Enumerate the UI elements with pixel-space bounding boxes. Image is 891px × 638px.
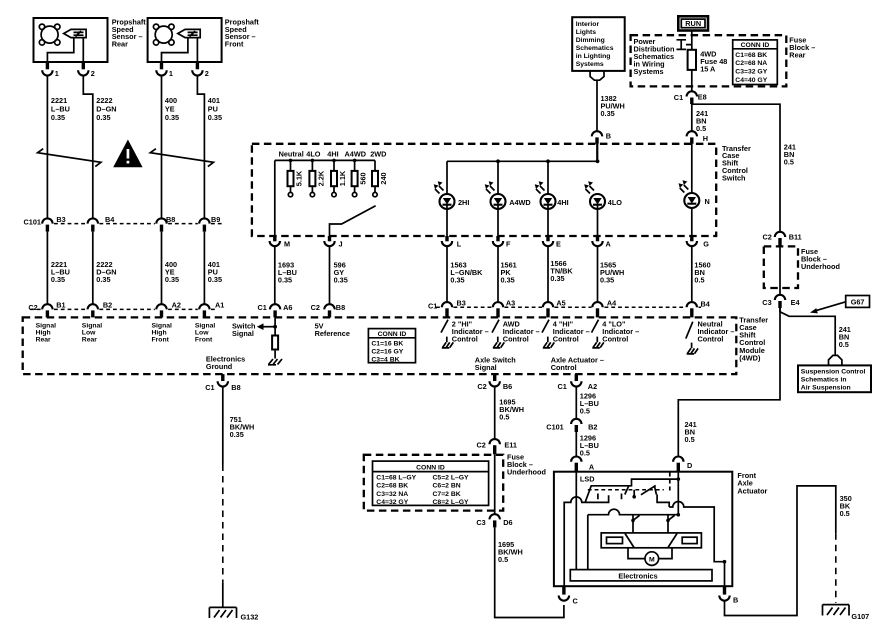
switch pin F bbox=[493, 236, 511, 248]
LSD middle blade bbox=[641, 486, 656, 495]
svg-text:4HI: 4HI bbox=[327, 150, 338, 159]
svg-text:0.35: 0.35 bbox=[51, 113, 65, 122]
svg-text:C1: C1 bbox=[205, 383, 214, 392]
coil resistor left bbox=[607, 537, 623, 543]
svg-text:2.2K: 2.2K bbox=[316, 170, 325, 186]
wire 596 bbox=[329, 246, 331, 303]
svg-text:Neutral: Neutral bbox=[279, 150, 304, 159]
G67 splice box bbox=[846, 296, 870, 308]
svg-text:4LO: 4LO bbox=[306, 150, 321, 159]
resistor R 240 bbox=[372, 160, 388, 196]
svg-text:C101: C101 bbox=[24, 218, 41, 227]
connector C1 E8 bbox=[674, 91, 707, 104]
sensor front pin 1 bbox=[156, 62, 173, 78]
actuator pin A bbox=[571, 457, 595, 472]
svg-text:Rear: Rear bbox=[36, 337, 51, 344]
LSD fixed contacts bbox=[598, 490, 634, 499]
svg-text:Control: Control bbox=[452, 334, 478, 343]
switch signal arrow bbox=[257, 323, 277, 330]
fuse 4WD Fuse 48 15A bbox=[688, 50, 696, 70]
fuse block rear box (dashed) bbox=[631, 35, 787, 86]
wire 1561 bbox=[497, 246, 499, 302]
pull-down resistor under A6 bbox=[272, 317, 278, 358]
RUN ignition box bbox=[678, 16, 708, 30]
transfer case shift control module box (dashed) bbox=[23, 317, 737, 374]
svg-text:E: E bbox=[556, 239, 561, 248]
module pin C1 A2 axle actuator control bbox=[558, 374, 598, 391]
svg-text:B3: B3 bbox=[457, 299, 466, 308]
svg-text:G67: G67 bbox=[851, 298, 865, 307]
svg-text:N: N bbox=[705, 197, 710, 206]
module pin C1 B8 electronics ground bbox=[205, 374, 240, 392]
svg-text:C101: C101 bbox=[546, 423, 563, 432]
svg-text:A2: A2 bbox=[172, 301, 181, 310]
C101 pin B8 bbox=[156, 215, 175, 232]
svg-text:D6: D6 bbox=[503, 518, 512, 527]
resistor R 560 bbox=[352, 159, 368, 197]
svg-text:E4: E4 bbox=[791, 298, 801, 307]
svg-text:Control: Control bbox=[698, 334, 724, 343]
module pin A6 bbox=[258, 303, 293, 317]
svg-text:B1: B1 bbox=[56, 301, 65, 310]
actuator bus to pin B with hop over D lead bbox=[669, 502, 724, 562]
svg-text:RUN: RUN bbox=[685, 19, 701, 28]
svg-text:C3=32 NA: C3=32 NA bbox=[376, 491, 408, 498]
wire through underhood box bbox=[779, 246, 781, 294]
module pin A2 bbox=[156, 301, 181, 318]
switch pin H bbox=[687, 131, 708, 144]
svg-text:0.35: 0.35 bbox=[51, 275, 65, 284]
wire rail to pin M bbox=[274, 160, 276, 236]
svg-text:G: G bbox=[703, 239, 709, 248]
svg-text:D: D bbox=[687, 461, 692, 470]
switch pin B bbox=[592, 131, 611, 144]
svg-text:High: High bbox=[152, 330, 167, 337]
svg-text:C1: C1 bbox=[428, 301, 437, 310]
svg-text:0.35: 0.35 bbox=[165, 113, 179, 122]
svg-text:C: C bbox=[573, 597, 579, 606]
svg-text:Reference: Reference bbox=[315, 329, 350, 338]
front axle actuator box bbox=[554, 472, 732, 587]
svg-text:C8=2 L–GY: C8=2 L–GY bbox=[433, 499, 470, 506]
module pin C2/B1 bbox=[28, 301, 65, 318]
connector C3 E4 bbox=[762, 295, 800, 308]
wire 401 lower bbox=[203, 232, 205, 304]
svg-text:Underhood: Underhood bbox=[801, 262, 840, 271]
wire 1296 lower bbox=[575, 432, 577, 456]
G67 arrow bbox=[810, 302, 846, 314]
svg-text:G107: G107 bbox=[851, 612, 869, 621]
switch pin G bbox=[687, 236, 710, 248]
wire 400 upper bbox=[161, 76, 163, 218]
svg-text:0.5: 0.5 bbox=[685, 435, 695, 444]
svg-text:15 A: 15 A bbox=[700, 65, 716, 74]
svg-text:Switch: Switch bbox=[722, 173, 746, 182]
wire fuse to E8 bbox=[691, 70, 693, 92]
C101 pin B3 bbox=[42, 215, 66, 232]
wire 2221 lower bbox=[46, 232, 48, 304]
svg-text:240: 240 bbox=[379, 172, 388, 184]
actuator internal A lead bbox=[575, 472, 577, 570]
switch pin M bbox=[270, 236, 290, 248]
svg-text:C3: C3 bbox=[762, 298, 771, 307]
svg-text:Systems: Systems bbox=[576, 61, 604, 68]
svg-text:2: 2 bbox=[205, 69, 209, 78]
svg-text:A: A bbox=[606, 239, 612, 248]
connector C3 D6 bbox=[476, 514, 512, 527]
switch pin E bbox=[543, 236, 561, 248]
svg-text:CONN ID: CONN ID bbox=[378, 331, 407, 338]
svg-text:Schematics in: Schematics in bbox=[801, 377, 847, 384]
svg-text:C2=68 BK: C2=68 BK bbox=[376, 483, 408, 490]
svg-text:C4=40 GY: C4=40 GY bbox=[735, 77, 767, 84]
warning triangle bbox=[113, 140, 142, 168]
svg-text:A: A bbox=[589, 463, 595, 472]
fuse block underhood box lower (dashed) bbox=[364, 455, 503, 511]
LSD right bracket bbox=[657, 495, 669, 508]
switch pin J bbox=[324, 236, 342, 248]
svg-text:Actuator: Actuator bbox=[737, 486, 767, 495]
interior lights dimming box bbox=[572, 17, 625, 71]
svg-text:Lights: Lights bbox=[576, 29, 597, 36]
wire 1560 bbox=[691, 246, 693, 302]
ground G107 bbox=[823, 605, 870, 621]
svg-text:Rear: Rear bbox=[789, 51, 805, 60]
AWD indicator control switch bbox=[492, 319, 540, 348]
svg-text:Signal: Signal bbox=[36, 323, 57, 330]
2 HI indicator control switch bbox=[441, 319, 489, 348]
neutral indicator control switch bbox=[686, 319, 735, 354]
wire 2222 upper bbox=[83, 76, 93, 218]
svg-text:0.35: 0.35 bbox=[208, 275, 222, 284]
svg-text:0.35: 0.35 bbox=[96, 275, 110, 284]
LED 4HI bbox=[535, 181, 569, 209]
svg-text:Signal: Signal bbox=[82, 323, 103, 330]
svg-text:B11: B11 bbox=[789, 233, 802, 242]
svg-text:C1=68 BK: C1=68 BK bbox=[735, 52, 767, 59]
svg-text:A5: A5 bbox=[556, 299, 565, 308]
LED N bbox=[679, 180, 710, 208]
svg-text:B4: B4 bbox=[105, 215, 115, 224]
C101 pin B9 bbox=[199, 215, 220, 232]
module pin B8 bbox=[311, 303, 346, 317]
module entry connector dashed line bbox=[30, 308, 217, 310]
wire 1693 bbox=[274, 246, 276, 303]
svg-text:A3: A3 bbox=[506, 299, 515, 308]
wire 751 bbox=[223, 387, 255, 608]
resistor R 5.1K bbox=[288, 159, 304, 197]
svg-text:C2=68 NA: C2=68 NA bbox=[735, 60, 767, 67]
svg-text:C2: C2 bbox=[477, 382, 486, 391]
svg-text:C2: C2 bbox=[477, 440, 486, 449]
svg-text:C3=32 GY: C3=32 GY bbox=[735, 69, 767, 76]
svg-text:C2=16 GY: C2=16 GY bbox=[371, 349, 403, 356]
CONN ID table fuse block rear bbox=[733, 40, 778, 85]
svg-text:0.5: 0.5 bbox=[498, 555, 508, 564]
svg-text:B6: B6 bbox=[503, 382, 512, 391]
svg-text:F: F bbox=[506, 239, 511, 248]
module pin B4 bbox=[687, 300, 711, 318]
motor feed contacts bbox=[631, 515, 674, 533]
svg-text:Rear: Rear bbox=[112, 40, 128, 49]
svg-text:B3: B3 bbox=[56, 215, 65, 224]
wire 1695 lower to pin C bbox=[495, 527, 564, 617]
svg-text:B8: B8 bbox=[166, 215, 175, 224]
CONN ID table module bbox=[368, 329, 415, 364]
suspension control schematics box bbox=[798, 365, 871, 392]
svg-text:High: High bbox=[36, 330, 51, 337]
svg-text:C2: C2 bbox=[311, 303, 320, 312]
actuator pin D bbox=[673, 457, 692, 472]
svg-text:0.5: 0.5 bbox=[839, 340, 849, 349]
svg-text:Schematics: Schematics bbox=[576, 45, 614, 52]
svg-text:B2: B2 bbox=[103, 301, 112, 310]
switch pin L bbox=[442, 236, 462, 248]
wire RUN to fuse bbox=[691, 31, 693, 50]
svg-text:C2: C2 bbox=[763, 233, 772, 242]
wire 400 lower bbox=[161, 232, 163, 304]
resistor ladder rail bbox=[275, 159, 375, 161]
svg-text:C1: C1 bbox=[558, 382, 567, 391]
actuator pin C bbox=[559, 586, 579, 605]
sensor rear pin 1 bbox=[42, 62, 59, 78]
ground under resistor bbox=[268, 359, 282, 365]
svg-text:G132: G132 bbox=[241, 613, 259, 622]
svg-text:C5=2 L–GY: C5=2 L–GY bbox=[433, 475, 470, 482]
svg-text:C4=32 GY: C4=32 GY bbox=[376, 499, 408, 506]
module pin A1 bbox=[199, 301, 224, 318]
wire E4 down to D bbox=[678, 308, 780, 456]
svg-text:C7=2 BK: C7=2 BK bbox=[433, 491, 461, 498]
middle connector dashed line bbox=[436, 306, 701, 308]
svg-text:Signal: Signal bbox=[195, 323, 216, 330]
svg-text:0.35: 0.35 bbox=[601, 109, 615, 118]
resistor R 2.2K bbox=[309, 159, 325, 197]
svg-text:0.35: 0.35 bbox=[96, 113, 110, 122]
svg-text:4LO: 4LO bbox=[608, 198, 623, 207]
module pin C2 B6 axle switch signal bbox=[477, 374, 512, 391]
svg-text:M: M bbox=[649, 557, 655, 564]
svg-text:Control: Control bbox=[553, 334, 579, 343]
propshaft speed sensor front box bbox=[148, 18, 222, 62]
svg-text:A6: A6 bbox=[283, 303, 292, 312]
wire 350 from pin B to G107 bbox=[725, 486, 852, 616]
ground G132 bbox=[209, 607, 258, 621]
actuator internal mid bus with hop bbox=[588, 509, 679, 569]
LED A4WD bbox=[485, 181, 531, 209]
svg-text:0.5: 0.5 bbox=[580, 449, 590, 458]
wire 1566 bbox=[547, 246, 549, 302]
actuator internal D lead bbox=[677, 472, 681, 517]
svg-text:Control: Control bbox=[602, 334, 628, 343]
svg-text:4HI: 4HI bbox=[557, 198, 568, 207]
svg-text:0.35: 0.35 bbox=[165, 275, 179, 284]
svg-text:560: 560 bbox=[359, 172, 368, 184]
svg-text:0.35: 0.35 bbox=[278, 276, 292, 285]
LED 2HI bbox=[434, 181, 470, 209]
wire break mark left pair bbox=[38, 149, 101, 167]
svg-text:Interior: Interior bbox=[576, 21, 600, 28]
svg-text:0.35: 0.35 bbox=[550, 274, 564, 283]
actuator pin B bbox=[719, 586, 738, 604]
switch pin A bbox=[592, 236, 611, 248]
svg-text:Front: Front bbox=[195, 337, 213, 344]
wire E11 to D6 bbox=[494, 454, 496, 514]
svg-text:0.35: 0.35 bbox=[501, 276, 515, 285]
svg-text:J: J bbox=[339, 239, 343, 248]
4 LO indicator control switch bbox=[592, 319, 640, 348]
off-page bracket to run wire bbox=[677, 40, 692, 50]
svg-text:CONN ID: CONN ID bbox=[741, 42, 770, 49]
LED 4LO bbox=[584, 181, 622, 209]
svg-text:LSD: LSD bbox=[580, 475, 595, 484]
svg-text:C1=68 L–GY: C1=68 L–GY bbox=[376, 475, 416, 482]
svg-text:M: M bbox=[284, 239, 290, 248]
svg-text:Front: Front bbox=[225, 40, 244, 49]
svg-text:Signal: Signal bbox=[152, 323, 173, 330]
svg-text:in Lighting: in Lighting bbox=[576, 53, 611, 60]
LSD carriage profile bbox=[585, 479, 679, 502]
svg-text:0.35: 0.35 bbox=[230, 430, 244, 439]
svg-text:C3: C3 bbox=[476, 518, 485, 527]
wire 1382 bbox=[596, 80, 598, 131]
svg-text:Control: Control bbox=[551, 363, 577, 372]
svg-text:1.1K: 1.1K bbox=[338, 170, 347, 186]
wire B to LED rail bbox=[597, 144, 598, 162]
svg-text:C2: C2 bbox=[28, 303, 37, 312]
svg-text:Dimming: Dimming bbox=[576, 37, 605, 44]
svg-text:0.5: 0.5 bbox=[784, 158, 794, 167]
svg-text:0.35: 0.35 bbox=[334, 276, 348, 285]
svg-text:E11: E11 bbox=[504, 440, 517, 449]
svg-text:Electronics: Electronics bbox=[618, 572, 657, 581]
connector C2 E11 bbox=[477, 439, 517, 454]
propshaft speed sensor rear box bbox=[34, 18, 108, 62]
svg-text:C1=16 BK: C1=16 BK bbox=[371, 341, 403, 348]
connector C2 B11 bbox=[763, 232, 802, 247]
svg-text:2WD: 2WD bbox=[370, 150, 386, 159]
svg-text:B4: B4 bbox=[701, 300, 711, 309]
svg-text:H: H bbox=[703, 134, 708, 143]
wire 241 E8 to H bbox=[691, 104, 693, 131]
svg-text:A1: A1 bbox=[215, 301, 224, 310]
svg-text:1: 1 bbox=[169, 69, 173, 78]
svg-text:0.35: 0.35 bbox=[600, 276, 614, 285]
svg-text:A4WD: A4WD bbox=[509, 198, 531, 207]
module pin A4 bbox=[592, 299, 617, 318]
off-page bracket above suspension box bbox=[829, 355, 842, 365]
wire 2222 lower bbox=[92, 232, 94, 304]
actuator internal B lead bbox=[723, 560, 727, 586]
svg-text:(4WD): (4WD) bbox=[739, 353, 761, 362]
module pin B2 bbox=[88, 301, 113, 318]
svg-text:CONN ID: CONN ID bbox=[416, 465, 445, 472]
svg-text:B8: B8 bbox=[231, 383, 240, 392]
LED column wires to pins bbox=[447, 144, 692, 236]
svg-text:C3=4 BK: C3=4 BK bbox=[371, 357, 399, 364]
electronics box bbox=[570, 570, 712, 581]
motor M bbox=[628, 548, 672, 566]
svg-text:B8: B8 bbox=[336, 303, 345, 312]
svg-text:Low: Low bbox=[195, 330, 209, 337]
svg-text:0.35: 0.35 bbox=[208, 113, 222, 122]
module pin B3 bbox=[428, 299, 466, 318]
sensor front pin 2 bbox=[192, 62, 209, 78]
svg-text:B: B bbox=[606, 132, 611, 141]
svg-text:2HI: 2HI bbox=[458, 198, 469, 207]
svg-text:Underhood: Underhood bbox=[507, 467, 546, 476]
wire 1296 upper bbox=[575, 387, 577, 419]
connector C101 B2 bbox=[546, 419, 597, 432]
svg-text:A4WD: A4WD bbox=[345, 150, 367, 159]
LED feed rail bbox=[447, 161, 598, 194]
resistor R 1.1K bbox=[331, 159, 347, 197]
transfer case shift control switch box (dashed) bbox=[252, 144, 716, 236]
wire 241 to suspension bbox=[780, 308, 835, 355]
svg-text:Signal: Signal bbox=[475, 363, 497, 372]
off-page bracket under interior lights box bbox=[590, 71, 604, 80]
svg-text:0.5: 0.5 bbox=[696, 124, 706, 133]
svg-text:A2: A2 bbox=[588, 382, 597, 391]
wire 1565 bbox=[597, 246, 599, 302]
svg-text:Signal: Signal bbox=[232, 329, 254, 338]
wire 2221 upper bbox=[46, 76, 48, 218]
svg-text:Low: Low bbox=[82, 330, 96, 337]
C101 connector dashed line bbox=[54, 223, 224, 225]
wire 1563 bbox=[446, 246, 448, 302]
wire 1695 upper bbox=[494, 387, 496, 439]
module pin A3 bbox=[493, 299, 515, 318]
svg-text:0.5: 0.5 bbox=[580, 406, 590, 415]
LSD middle trapezoid bbox=[625, 486, 657, 495]
svg-text:B9: B9 bbox=[211, 215, 220, 224]
svg-text:0.5: 0.5 bbox=[694, 276, 704, 285]
wire 401 upper bbox=[197, 76, 204, 218]
module pin A5 bbox=[543, 299, 566, 318]
svg-text:1: 1 bbox=[55, 69, 59, 78]
svg-text:5.1K: 5.1K bbox=[295, 170, 304, 186]
svg-text:B2: B2 bbox=[588, 423, 597, 432]
sensor rear pin 2 bbox=[78, 62, 95, 78]
svg-text:E8: E8 bbox=[698, 93, 707, 102]
CONN ID table underhood bbox=[373, 461, 489, 506]
rotary switch wiper bbox=[330, 206, 376, 236]
svg-text:0.35: 0.35 bbox=[450, 276, 464, 285]
trapezoid diagonals bbox=[625, 534, 677, 548]
svg-text:Rear: Rear bbox=[82, 337, 97, 344]
svg-text:B: B bbox=[733, 596, 738, 605]
svg-text:0.5: 0.5 bbox=[840, 509, 850, 518]
4 HI indicator control switch bbox=[542, 319, 590, 348]
LSD linkage dashed bbox=[588, 489, 664, 491]
fuse block underhood box upper (dashed) bbox=[764, 246, 798, 288]
svg-text:Air Suspension: Air Suspension bbox=[801, 385, 851, 392]
wire 241 right branch bbox=[692, 104, 780, 231]
svg-text:0.5: 0.5 bbox=[499, 413, 509, 422]
svg-text:Systems: Systems bbox=[634, 67, 664, 76]
svg-text:C1: C1 bbox=[674, 93, 683, 102]
svg-text:2: 2 bbox=[91, 69, 95, 78]
actuator internal C bus with hop over A lead bbox=[564, 495, 608, 586]
svg-text:C6=2 BN: C6=2 BN bbox=[433, 483, 461, 490]
svg-text:C1: C1 bbox=[258, 303, 267, 312]
C101 pin B4 bbox=[88, 215, 116, 232]
svg-text:Front: Front bbox=[152, 337, 170, 344]
wire break mark right pair bbox=[150, 149, 213, 167]
svg-text:A4: A4 bbox=[607, 299, 617, 308]
svg-text:Ground: Ground bbox=[206, 362, 232, 371]
svg-text:Suspension Control: Suspension Control bbox=[801, 369, 866, 376]
